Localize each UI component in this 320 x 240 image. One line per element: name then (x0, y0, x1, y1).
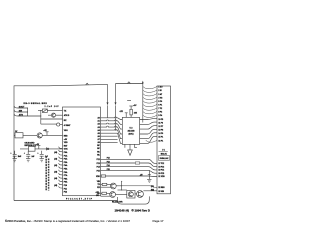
wire U2 bottom stubs (125, 144, 137, 147)
transistor Q5 (37, 133, 42, 138)
svg-text:19 P14: 19 P14 (158, 169, 164, 172)
svg-text:1N4148 (4): 1N4148 (4) (115, 209, 130, 212)
wire Q1 second input (101, 186, 111, 188)
svg-text:P12: P12 (97, 159, 100, 161)
svg-text:SIN: SIN (19, 110, 23, 112)
ground below U2 (129, 144, 131, 150)
svg-text:7 P2: 7 P2 (158, 108, 162, 110)
junction vertical (27, 108, 29, 116)
header pin labels lower (158, 163, 165, 193)
regulator U5 row B (20, 148, 63, 150)
wire into Q4 (135, 193, 137, 195)
svg-text:BS2-IC: BS2-IC (161, 154, 168, 156)
svg-text:13 P8: 13 P8 (158, 130, 163, 132)
svg-text:P15: P15 (97, 170, 100, 172)
note rotated column (drawn as dashes) (46, 156, 48, 191)
svg-text:8 P3: 8 P3 (158, 112, 162, 114)
svg-text:15 P1: 15 P1 (158, 137, 163, 139)
IC U2 EEPROM body (122, 117, 139, 144)
capacitor value labels (18, 156, 48, 158)
wire U2 to header nets (140, 118, 157, 121)
svg-text:©2004 Parallax, Inc. • BASIC: ©2004 Parallax, Inc. • BASIC Stamp is a … (5, 219, 131, 223)
svg-text:A0: A0 (97, 117, 99, 120)
svg-text:ATN 5: ATN 5 (64, 114, 69, 117)
svg-text:© 1994 Rev D: © 1994 Rev D (132, 209, 151, 212)
svg-text:DB-9 SERIAL BRD: DB-9 SERIAL BRD (24, 102, 48, 105)
wire Q4 out to header (143, 190, 157, 192)
svg-text:U 2: U 2 (130, 128, 133, 130)
svg-text:PIC16C57-XT/P: PIC16C57-XT/P (66, 198, 93, 200)
svg-text:17 P12: 17 P12 (158, 163, 164, 165)
net labels on lower bus (107, 158, 110, 171)
svg-text:1 SO: 1 SO (158, 87, 163, 89)
svg-text:23 VIN: 23 VIN (158, 191, 164, 193)
svg-text:21 VDD: 21 VDD (158, 176, 165, 178)
svg-text:P15: P15 (107, 169, 110, 171)
svg-text:P11: P11 (64, 188, 67, 190)
resistor R1 10K (130, 106, 132, 117)
svg-text:P14: P14 (97, 166, 100, 169)
svg-text:A8: A8 (97, 141, 99, 144)
wire left frame vertical (13, 86, 15, 201)
wire Q2 second input from below (101, 195, 111, 197)
svg-text:10uF: 10uF (18, 156, 22, 158)
svg-text:5 P0: 5 P0 (158, 101, 162, 103)
svg-text:A3: A3 (97, 126, 99, 129)
diode D1 small circle (57, 123, 60, 126)
capacitor C3 with ground (40, 151, 44, 159)
power +5V tee row A (45, 132, 48, 136)
connector header J1 body (157, 86, 171, 194)
power +5V tee above R1 (129, 105, 133, 107)
wire drop 1 with arrowhead (107, 84, 109, 102)
svg-text:A2: A2 (97, 123, 99, 126)
svg-text:P13: P13 (97, 163, 100, 165)
svg-text:A5: A5 (97, 132, 99, 135)
resistor R4 body on VDD row (101, 175, 105, 177)
wire fan U1 to U2 (6 nets) (101, 117, 123, 120)
power +5V tee row B (37, 146, 40, 149)
wire top horizontal run (14, 83, 108, 86)
svg-text:18 P13: 18 P13 (158, 166, 164, 168)
svg-text:14 P9: 14 P9 (158, 132, 163, 135)
svg-text:(SOIC): (SOIC) (129, 134, 134, 136)
transistor Q4 (137, 191, 144, 198)
svg-text:10 P5: 10 P5 (158, 119, 163, 121)
svg-text:RS-232 DVR: RS-232 DVR (112, 201, 123, 203)
wire Q1 collector out to header (116, 185, 122, 187)
wire into driver block (118, 189, 127, 191)
U1 outer lower-left pin labels (54, 151, 57, 187)
diode D2 (47, 148, 49, 150)
svg-text:6 P1: 6 P1 (158, 105, 162, 107)
U1 right pin labels (96, 117, 101, 196)
svg-text:U 1: U 1 (162, 149, 165, 151)
svg-text:11 P6: 11 P6 (158, 122, 163, 124)
svg-text:P12: P12 (64, 192, 67, 194)
svg-text:20 P15: 20 P15 (158, 173, 164, 175)
svg-text:A6: A6 (97, 135, 99, 138)
svg-text:4 VBAT: 4 VBAT (64, 124, 71, 127)
header pin labels upper (158, 87, 163, 143)
wire bundle spine vertical with up arrow (142, 83, 144, 123)
wire U1 right stubs rows 7-9 (101, 135, 118, 137)
resistor R2 on Q1 base (101, 183, 111, 185)
wire top run 2 with hop (116, 82, 143, 84)
svg-text:P13: P13 (107, 161, 110, 163)
regulator VR1 row (14, 134, 63, 136)
svg-text:P10: P10 (64, 185, 67, 187)
svg-text:SOUT: SOUT (19, 106, 25, 108)
label block divider in header (159, 150, 168, 152)
svg-text:16 P1: 16 P1 (158, 140, 163, 142)
svg-text:ATN: ATN (19, 113, 24, 116)
svg-text:OSC: OSC (64, 149, 69, 151)
svg-text:A7: A7 (97, 138, 99, 141)
svg-text:(RX): (RX) (151, 190, 155, 192)
svg-text:A4: A4 (97, 129, 99, 132)
ribbon arcs header upper pins (143, 86, 157, 142)
svg-text:.1uF: .1uF (31, 156, 34, 158)
transistor Q2 (110, 192, 116, 198)
serial port wires with hooks (14, 106, 41, 116)
transistor Q6 (51, 113, 55, 117)
label box in header (159, 156, 170, 161)
IC U1 interpreter body (63, 107, 101, 196)
wire driver enclosure loop (118, 196, 150, 204)
svg-text:P12: P12 (107, 158, 110, 160)
svg-text:Page 17: Page 17 (153, 219, 165, 223)
svg-text:(TX): (TX) (151, 186, 154, 188)
wire Q2 out (116, 194, 127, 196)
svg-text:2.2uF 16V: 2.2uF 16V (45, 106, 60, 108)
wire drop 2 with arrowhead (115, 84, 117, 103)
wire bottom frame horizontal (14, 200, 118, 202)
wire lower bus P12-P15 and VDD row (101, 159, 158, 163)
capacitor C1 with ground (13, 151, 17, 159)
node dash inside loop (127, 100, 131, 102)
crystal Y1 (42, 109, 47, 112)
wire U1 lower-left pin hooks (59, 147, 63, 188)
driver block B1 with transistor Q3 (127, 191, 135, 199)
svg-text:9 P4: 9 P4 (158, 114, 162, 117)
svg-text:22 RES: 22 RES (158, 187, 165, 189)
svg-text:12 P7: 12 P7 (158, 126, 163, 128)
vertical junction x40.8 (40, 111, 42, 125)
resistor R3 on Q2 base (101, 192, 110, 194)
svg-text:A1: A1 (97, 120, 99, 123)
wire row into U1 (41, 118, 63, 120)
wire U2 left top stub with tee (125, 113, 128, 118)
resistor R5 on bus row (135, 162, 139, 164)
transistor Q1 (110, 183, 116, 189)
junction vertical from VDD row into driver (121, 181, 123, 190)
svg-text:2 SI: 2 SI (158, 90, 162, 92)
power +5V stem and capacitor ground at header (148, 171, 151, 179)
footer line (5, 219, 164, 223)
capacitor C2 with ground (26, 151, 30, 159)
